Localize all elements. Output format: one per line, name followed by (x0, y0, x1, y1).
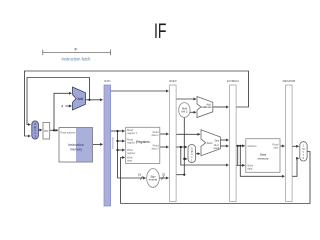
svg-text:register 1: register 1 (127, 132, 138, 135)
svg-text:EX/MEM: EX/MEM (227, 79, 239, 83)
svg-text:Instruction fetch: Instruction fetch (62, 56, 92, 61)
svg-text:memory: memory (258, 156, 269, 160)
svg-text:ALU: ALU (214, 144, 219, 147)
svg-text:IF: IF (74, 48, 77, 52)
svg-text:32: 32 (162, 173, 166, 177)
svg-text:Instruction: Instruction (68, 143, 84, 147)
svg-text:result: result (213, 147, 219, 150)
svg-text:data 2: data 2 (152, 148, 160, 151)
svg-text:Address: Address (247, 145, 257, 148)
svg-text:Add: Add (77, 97, 83, 101)
svg-text:left 2: left 2 (181, 110, 187, 114)
svg-text:IF: IF (154, 19, 167, 43)
svg-text:ALU: ALU (207, 141, 213, 145)
svg-text:data: data (127, 160, 132, 163)
svg-text:register: register (127, 152, 136, 155)
svg-text:data: data (274, 146, 279, 149)
svg-text:result: result (206, 106, 212, 109)
svg-text:data 1: data 1 (152, 134, 160, 137)
svg-text:memory: memory (70, 147, 83, 151)
svg-text:MEM/WB: MEM/WB (283, 79, 296, 83)
svg-text:Instruction: Instruction (110, 136, 114, 149)
svg-text:extend: extend (149, 178, 158, 182)
svg-text:4: 4 (61, 105, 63, 109)
svg-text:data: data (247, 167, 252, 170)
svg-text:Registers: Registers (136, 140, 150, 144)
svg-text:ID/EX: ID/EX (169, 79, 177, 83)
svg-text:16: 16 (138, 173, 142, 177)
svg-text:Read address: Read address (61, 131, 77, 134)
svg-text:Zero: Zero (214, 139, 219, 142)
svg-text:IF/ID: IF/ID (104, 79, 111, 83)
